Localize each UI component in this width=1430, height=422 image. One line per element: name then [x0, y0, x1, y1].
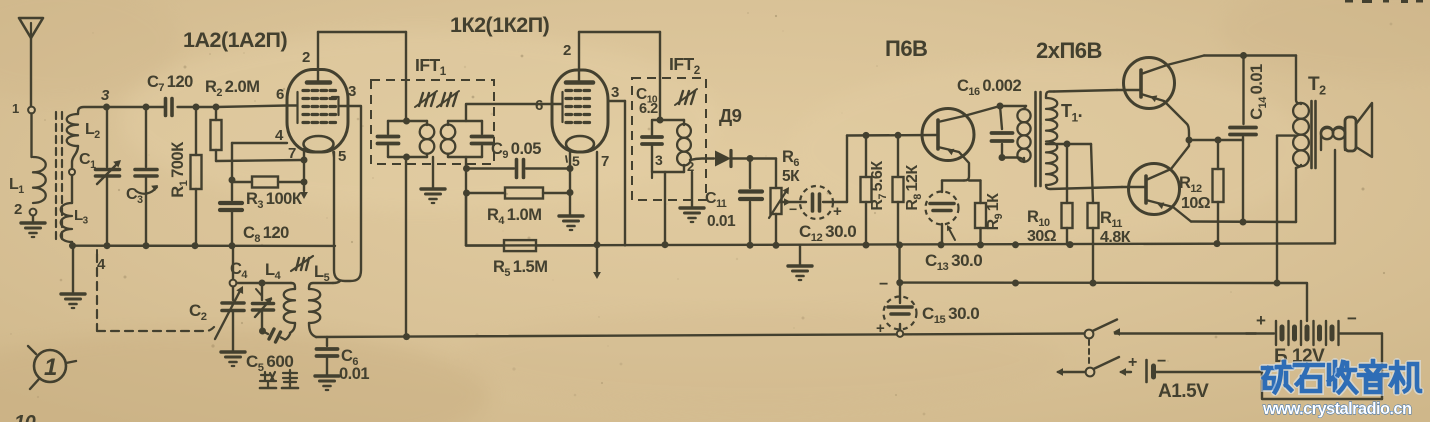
wiper wire to C12 [780, 201, 806, 203]
wire base line Q1 [847, 134, 936, 137]
svg-text:0.01: 0.01 [339, 365, 369, 383]
node 3 [103, 104, 110, 111]
wire R4 column to rail corner [465, 193, 467, 246]
tube U1 grid bracket pin3 [332, 96, 339, 98]
capacitor C1 variable [106, 110, 108, 167]
tube U2 envelope [552, 70, 608, 152]
label dianzheng (padding) chinese [261, 374, 269, 376]
svg-text:−: − [879, 276, 888, 293]
IFT2 dashed box [632, 78, 706, 200]
svg-text:4: 4 [97, 256, 106, 273]
speaker horn [1356, 103, 1372, 157]
wire pin3 pin5 grid loop [334, 106, 361, 281]
resistor R10 [1066, 144, 1068, 245]
cut-off text marks top edge [1345, 0, 1353, 3]
svg-text:7: 7 [601, 153, 609, 170]
ferrite rod dashed core [55, 112, 57, 242]
svg-text:3: 3 [611, 84, 619, 101]
switch link dashed [1088, 340, 1090, 366]
svg-text:5: 5 [572, 153, 580, 169]
emitter wire Q1 [942, 179, 964, 181]
IFT2 ground stub [651, 172, 653, 178]
IFT1 secondary capacitor [472, 135, 493, 139]
wire B emitter line [1191, 220, 1296, 223]
wire L2 to L3 with tap [72, 146, 78, 168]
tube U1 grid bracket pin6 [287, 104, 297, 106]
node Q1 collector [997, 103, 1004, 110]
resistor R2 [215, 107, 217, 161]
svg-text:2хП6В: 2хП6В [1036, 38, 1102, 63]
pin 3 U2 [608, 100, 625, 102]
svg-text:1А2(1А2П): 1А2(1А2П) [183, 28, 287, 52]
svg-text:6.2: 6.2 [639, 101, 658, 117]
IFT2 tank capacitor C10 plates [642, 135, 662, 139]
pin7 node column [303, 160, 305, 191]
IFT1 primary capacitor [378, 135, 399, 139]
IFT2 core symbol [679, 91, 683, 104]
resistor R3 [232, 181, 302, 183]
svg-text:C14​ 0.01: C14​ 0.01 [1248, 64, 1269, 120]
resistor R11 [1091, 144, 1093, 203]
resistor R5 [466, 244, 597, 246]
capacitor C14 [1242, 56, 1244, 125]
svg-text:C16​ 0.002: C16​ 0.002 [957, 77, 1021, 98]
IFT1 primary tank loop [388, 120, 427, 122]
transformer T2 core [1310, 101, 1313, 168]
IFT2 tank loop [652, 120, 684, 172]
anode rail U1 to IFT1 [318, 31, 406, 33]
svg-text:4: 4 [275, 127, 284, 144]
switch S2 [1086, 368, 1095, 377]
ground U2 cathode [559, 214, 583, 217]
tube U1 envelope [287, 70, 348, 153]
transformer T1 core [1034, 92, 1037, 186]
figure number circle 1 [34, 350, 66, 382]
svg-text:C15​ 30.0: C15​ 30.0 [922, 304, 979, 326]
svg-text:1: 1 [44, 354, 57, 381]
potentiometer R6 [775, 159, 777, 246]
speaker frame [1345, 117, 1356, 151]
svg-text:0.01: 0.01 [707, 213, 736, 230]
IFT1 secondary tank loop [448, 120, 482, 122]
node detector output [747, 155, 754, 162]
terminal 2 [30, 209, 37, 216]
electrolytic C13 [941, 181, 943, 193]
svg-text:7: 7 [288, 145, 296, 162]
ground rail bottom [316, 335, 406, 338]
electrolytic C15 [898, 245, 900, 280]
svg-text:3: 3 [348, 83, 356, 100]
node Q2emitter Q3collector [1186, 137, 1193, 144]
IFT1 dashed box [371, 80, 494, 164]
battery B cells [1275, 321, 1277, 345]
pin 5 U2 [569, 152, 571, 215]
ground L3 rail [61, 292, 85, 295]
IFT1 ground stub [432, 157, 434, 188]
wire antenna to L1 [30, 114, 32, 158]
tube U1 grids [303, 89, 309, 92]
svg-text:4.8К: 4.8К [1100, 229, 1131, 246]
resistor R7 [865, 135, 867, 245]
transformer T2 primary [1293, 103, 1309, 119]
svg-text:−: − [789, 201, 797, 217]
wire diode to R6 [750, 157, 776, 159]
svg-text:10Ω: 10Ω [1181, 195, 1211, 212]
coil L1 [33, 157, 46, 203]
svg-text:5К: 5К [782, 168, 800, 185]
antenna [19, 18, 43, 38]
svg-text:R8​ 12К: R8​ 12К [904, 165, 924, 211]
svg-text:+: + [876, 320, 885, 337]
wire U2 pin3 down to rail [624, 101, 626, 245]
resistor R1 [195, 107, 197, 246]
ground stub mid rail [799, 245, 801, 265]
speaker return wire [1334, 150, 1336, 243]
wire IFT1 secondary bottom down [465, 157, 467, 246]
trimmer C4 [261, 283, 263, 300]
svg-text:1: 1 [12, 101, 19, 116]
svg-text:R2​ 2.0M: R2​ 2.0M [205, 78, 259, 99]
pin 2 U1 [317, 32, 319, 83]
transistor Q2 [1124, 58, 1175, 109]
capacitor C6 [326, 337, 328, 346]
T2 primary tap [1277, 134, 1295, 136]
svg-text:10: 10 [14, 412, 36, 422]
svg-text:Д9: Д9 [719, 105, 742, 126]
pin 4 U1 [232, 142, 287, 144]
wire collector to T1 primary [1000, 105, 1026, 107]
wire C16 bottom to T1 primary bottom [1002, 158, 1024, 161]
resistor R8 [897, 135, 899, 245]
IFT1 core symbol [419, 93, 423, 106]
svg-text:R5​ 1.5M: R5​ 1.5M [493, 258, 547, 279]
IFT1 secondary coil [441, 125, 456, 140]
main filament rail [466, 243, 1335, 245]
IFT2 tank bottom to rail [664, 172, 666, 245]
wire R2 bottom to pin7 node [216, 160, 302, 161]
svg-text:R4​ 1.0M: R4​ 1.0M [487, 206, 541, 227]
svg-text:C13​ 30.0: C13​ 30.0 [925, 251, 982, 273]
svg-text:3: 3 [655, 152, 663, 168]
svg-text:5: 5 [338, 148, 346, 165]
svg-text:C8​ 120: C8​ 120 [243, 224, 289, 245]
ground antenna [32, 216, 34, 223]
transformer T1 primary [1024, 106, 1026, 109]
tube U2 grids [566, 89, 572, 92]
svg-text:30Ω: 30Ω [1027, 228, 1057, 245]
wire T1 sec top to Q2 base [1054, 90, 1117, 92]
svg-text:www.crystalradio.cn: www.crystalradio.cn [1262, 400, 1412, 418]
resistor R12 [1217, 140, 1219, 244]
rail 283 segment [900, 281, 1277, 284]
IFT2 coil [677, 124, 691, 138]
diode D9 [715, 151, 731, 167]
svg-text:2: 2 [302, 49, 310, 66]
wire L3 to rail [71, 242, 73, 246]
battery return wire [1262, 372, 1382, 399]
terminal 1 [28, 107, 35, 114]
IFT1 tank bottom junction [403, 154, 410, 161]
pin 7 U1 [303, 149, 305, 160]
svg-text:1К2(1К2П): 1К2(1К2П) [450, 13, 550, 37]
adjustable core L4 L5 [296, 258, 299, 270]
svg-text:2: 2 [14, 201, 22, 218]
capacitor C8 [231, 182, 233, 200]
wire L5 top to grid loop [333, 281, 340, 283]
svg-text:−: − [1157, 353, 1166, 370]
wire C12 up to base line [846, 136, 848, 203]
left filament rail [73, 244, 336, 247]
coil L5 [309, 283, 333, 289]
svg-text:3: 3 [101, 87, 110, 104]
coil L4 [291, 283, 295, 289]
AGC arrow below rail U2 [596, 245, 598, 272]
transformer T2 primary top lead [1296, 56, 1299, 104]
wire IFT1 down continues [405, 157, 407, 337]
svg-text:+: + [1256, 311, 1266, 330]
tube U2 anode [566, 80, 593, 85]
tube U1 anode [307, 80, 330, 85]
svg-text:А1.5V: А1.5V [1158, 381, 1209, 402]
svg-text:+: + [833, 203, 842, 220]
transformer T1 secondary [1046, 92, 1054, 99]
svg-text:2: 2 [563, 42, 571, 59]
resistor R4 [466, 192, 570, 194]
svg-text:−: − [1347, 309, 1357, 328]
pin 2 U2 [578, 32, 580, 83]
svg-text:R9​ 1К: R9​ 1К [985, 193, 1005, 231]
tube U2 grid bracket pin6 [552, 103, 562, 105]
tap terminal between L2 L3 [69, 169, 75, 175]
wire anode rail down to IFT1 [405, 32, 407, 121]
capacitor C16 [1000, 106, 1002, 129]
svg-text:R3​ 100К: R3​ 100К [246, 190, 303, 211]
transistor Q3 [1129, 164, 1180, 215]
svg-text:C12​ 30.0: C12​ 30.0 [799, 222, 856, 244]
wire pin4 down [231, 143, 233, 180]
IFT1 primary coil [420, 125, 435, 140]
T1 center tap [1046, 143, 1067, 145]
capacitor C11 [749, 159, 751, 189]
svg-text:R1​ 700К: R1​ 700К [169, 141, 190, 198]
svg-text:6: 6 [535, 97, 543, 114]
collector rail top [1204, 54, 1296, 56]
transformer T2 secondary and speaker voice coil [1321, 128, 1345, 150]
electrolytic C12 [800, 186, 833, 219]
capacitor C7 [178, 106, 195, 108]
oscillator wire y283 [237, 282, 263, 284]
capacitor C3 variable [145, 107, 147, 167]
svg-text:C5​ 600: C5​ 600 [246, 352, 293, 374]
resistor R9 [979, 181, 981, 245]
watermark chinese crystalradio [1263, 368, 1275, 388]
svg-text:C7​ 120: C7​ 120 [147, 73, 193, 94]
wire coil tap to diode [690, 159, 714, 161]
svg-text:+: + [1128, 354, 1137, 371]
svg-text:6: 6 [276, 86, 284, 103]
wire grid top to tube pin6 [194, 106, 216, 108]
wire top rail RF [107, 106, 165, 108]
transistor Q1 [922, 109, 974, 161]
wire anode rail U2 down to IFT2 [659, 32, 661, 120]
svg-text:П6В: П6В [885, 36, 927, 61]
coil L3 [71, 176, 73, 204]
wire A to R12 C14 [1189, 139, 1243, 141]
capacitor C9 [466, 167, 514, 169]
capacitor C5 padder [263, 331, 269, 334]
capacitor C2 variable [232, 249, 234, 280]
wire rail283 to battery plus [1277, 283, 1307, 321]
wire IFT1 secondary top to U2 pin6 [466, 104, 552, 121]
switch S1 [1085, 330, 1094, 339]
pin 7 U2 [596, 152, 598, 245]
coil L2 [78, 107, 107, 114]
wire T1 sec bottom to Q3 base [1046, 185, 1122, 189]
